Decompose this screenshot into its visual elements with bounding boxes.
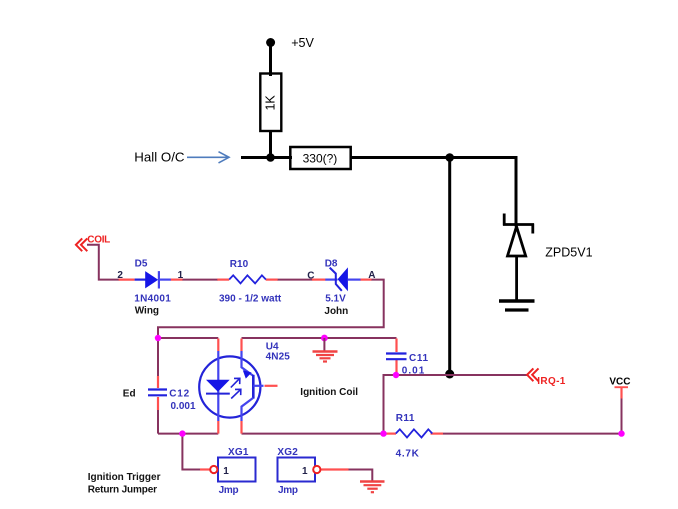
svg-text:U4: U4 [266, 341, 279, 352]
svg-text:COIL: COIL [87, 235, 110, 246]
svg-text:R10: R10 [230, 259, 249, 270]
svg-text:1: 1 [178, 270, 184, 281]
svg-text:1: 1 [223, 466, 229, 477]
svg-text:VCC: VCC [609, 377, 630, 388]
svg-text:5.1V: 5.1V [325, 294, 346, 305]
svg-text:D5: D5 [135, 258, 148, 269]
svg-text:C11: C11 [409, 353, 429, 364]
svg-text:Return Jumper: Return Jumper [88, 484, 157, 495]
svg-text:+5V: +5V [291, 36, 314, 50]
svg-text:0.01: 0.01 [402, 365, 425, 376]
svg-text:330(?): 330(?) [303, 151, 338, 165]
svg-text:C: C [307, 271, 314, 282]
svg-text:XG1: XG1 [228, 447, 249, 458]
svg-text:ZPD5V1: ZPD5V1 [545, 245, 592, 259]
svg-text:0.001: 0.001 [171, 401, 196, 412]
svg-text:John: John [324, 306, 348, 317]
svg-text:Jmp: Jmp [219, 485, 239, 496]
svg-text:XG2: XG2 [277, 447, 298, 458]
svg-text:1K: 1K [264, 95, 278, 111]
svg-text:R11: R11 [396, 413, 415, 424]
svg-text:Hall O/C: Hall O/C [134, 149, 185, 164]
svg-text:1N4001: 1N4001 [134, 294, 171, 305]
svg-text:Ed: Ed [123, 388, 136, 399]
svg-text:390 - 1/2 watt: 390 - 1/2 watt [219, 293, 282, 304]
svg-text:A: A [368, 270, 375, 281]
svg-text:Ignition Trigger: Ignition Trigger [88, 472, 161, 483]
svg-text:4N25: 4N25 [266, 352, 291, 363]
svg-text:IRQ-1: IRQ-1 [537, 376, 566, 387]
svg-text:2: 2 [117, 270, 123, 281]
svg-text:Ignition Coil: Ignition Coil [300, 387, 358, 398]
svg-text:Wing: Wing [135, 305, 159, 316]
svg-text:4.7K: 4.7K [396, 448, 420, 459]
svg-text:D8: D8 [325, 258, 338, 269]
svg-text:C12: C12 [169, 389, 190, 400]
svg-text:1: 1 [302, 466, 308, 477]
svg-text:Jmp: Jmp [278, 485, 298, 496]
